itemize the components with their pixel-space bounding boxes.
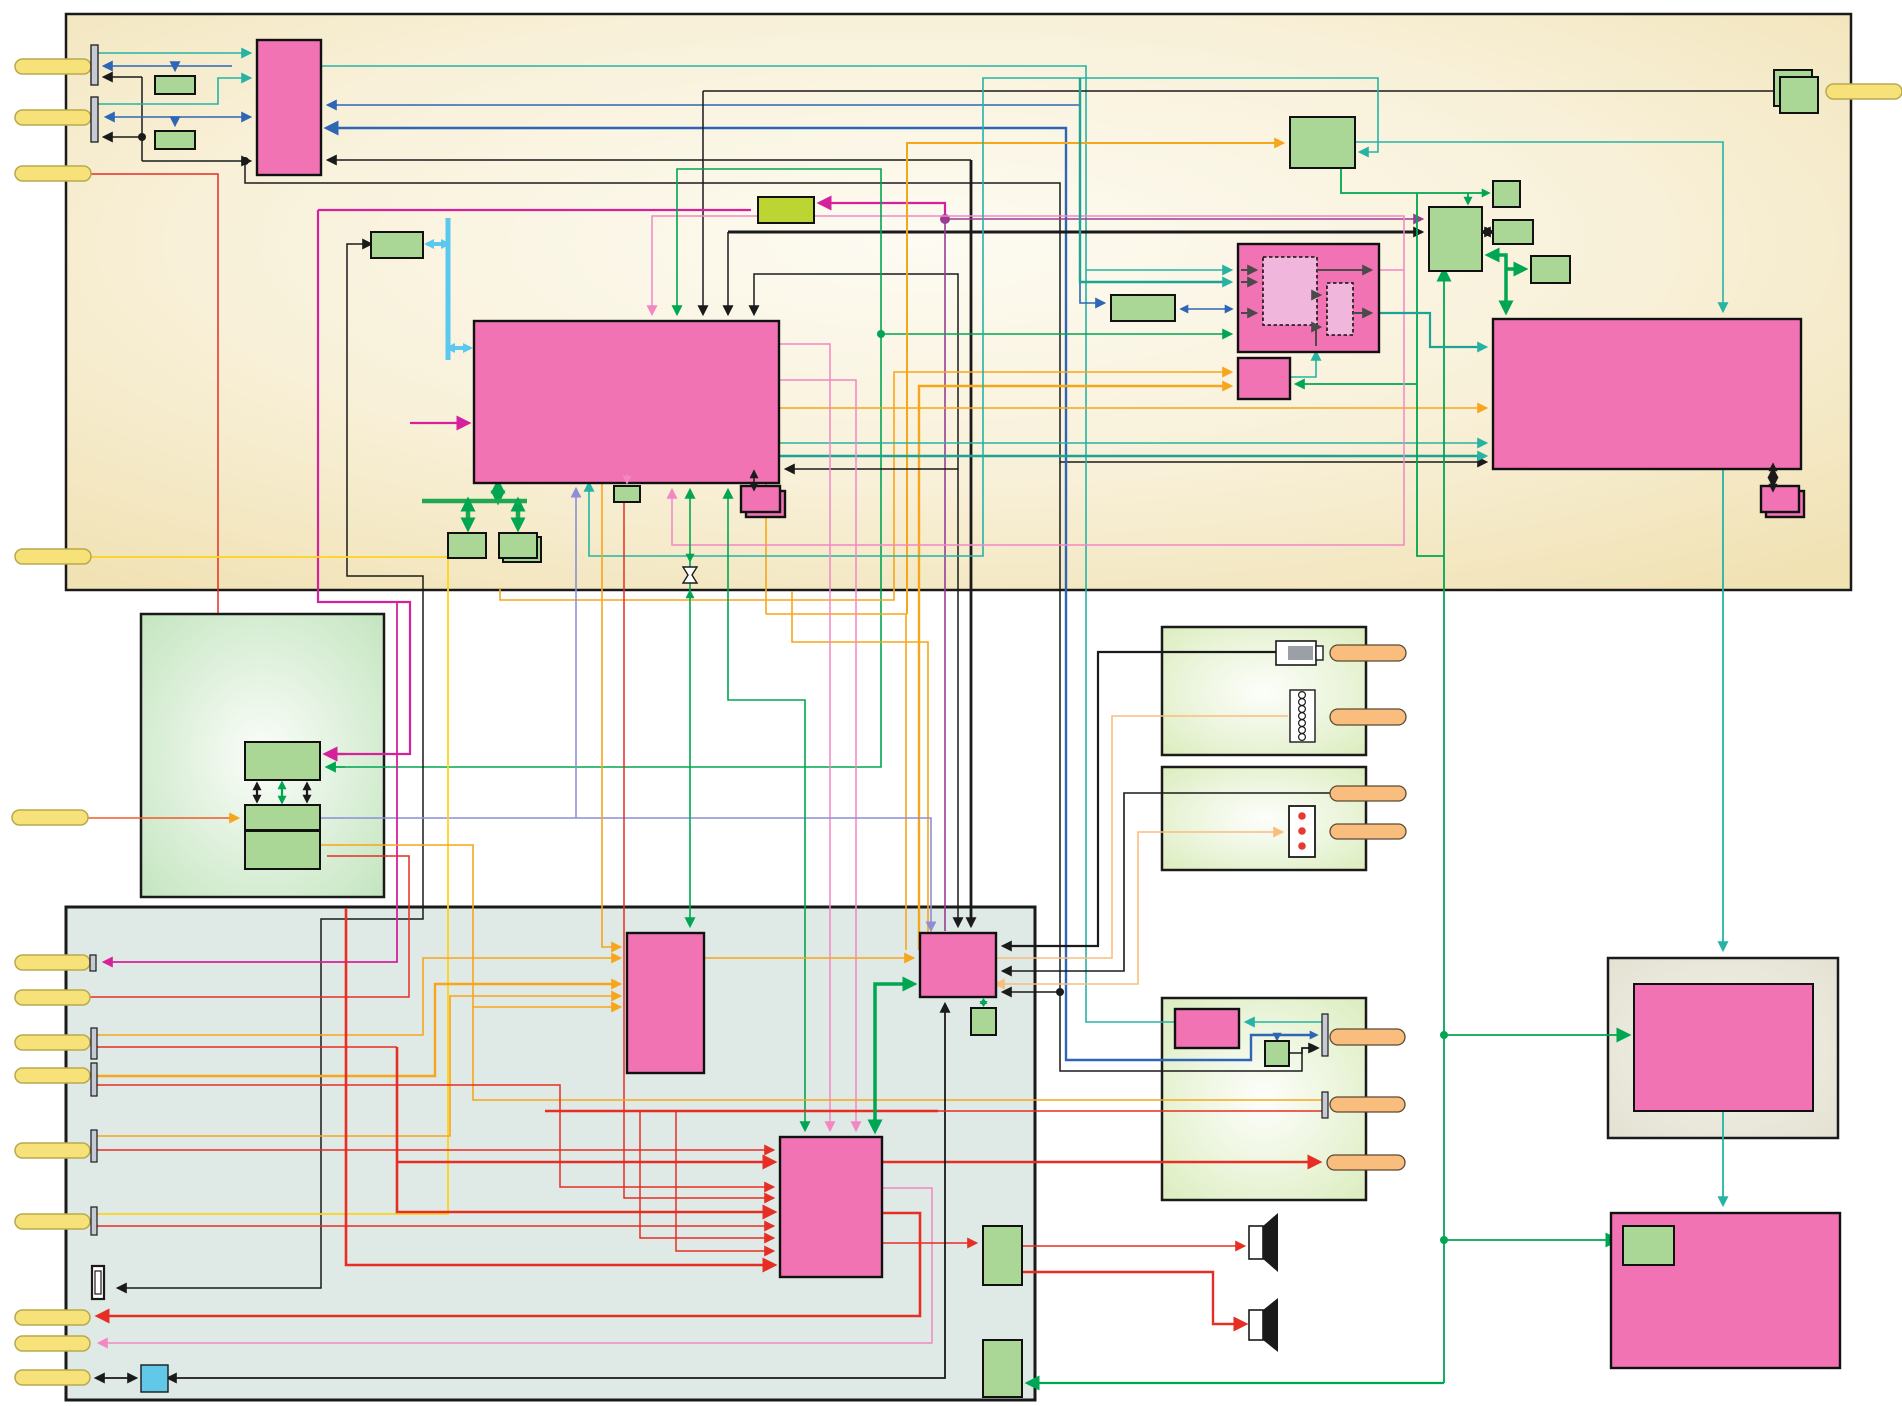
wire: black vertical junction x142 xyxy=(141,77,143,161)
wire: red thick horizontal feed xyxy=(545,1110,938,1113)
wire: red pill3 drop to green panel xyxy=(90,174,218,613)
wire: red into bar C2 xyxy=(938,1110,1324,1112)
wire: red bar3 to DSP via riser xyxy=(97,1046,397,1048)
codec P9 xyxy=(627,933,704,1073)
emerald arrow into G15 xyxy=(327,766,345,768)
amp G19 xyxy=(983,1226,1022,1285)
wire: orange riser to clock G5 xyxy=(907,143,1283,614)
wire: black IC5 to flash P6 xyxy=(1772,469,1774,486)
wire: orange IC2 area down to P9 xyxy=(602,483,620,947)
pmic hub G6 xyxy=(1429,207,1482,271)
wire: magenta net L spine xyxy=(318,210,410,754)
LED column icon xyxy=(1289,806,1315,857)
speaker 2 xyxy=(1249,1310,1263,1340)
audio reg G18 xyxy=(1265,1041,1289,1066)
wire: emerald branch to display panel xyxy=(1444,1034,1627,1036)
wire: emerald bottom to amp G20 xyxy=(1029,1382,1444,1384)
wire: orange bar4 riser to P9 thick xyxy=(97,984,620,1076)
panel: main board (yellow) xyxy=(66,14,1851,590)
wire: blue into bar C1 xyxy=(1289,1048,1317,1053)
sensor G11 xyxy=(614,486,640,502)
wire: emerald drop into hub top xyxy=(1467,193,1469,203)
wire: pink DSP loop to pill9 xyxy=(99,1188,932,1343)
G7 xyxy=(1493,181,1520,207)
wire: teal display panel to bottom block xyxy=(1722,1111,1724,1205)
wire: emerald G5 bottom to hub G6 and G7 xyxy=(1341,168,1488,193)
wire: emerald from below into hub G6 bottom xyxy=(1443,271,1445,1383)
wire: red amp to speaker2 thick xyxy=(1022,1272,1244,1324)
wire: teal bar2 jog to IC1 xyxy=(98,78,250,104)
speaker 1 xyxy=(1249,1226,1263,1259)
wire: green bus under IC2 xyxy=(496,483,501,501)
coil icon xyxy=(1290,690,1315,742)
clock gen G5 xyxy=(1290,117,1355,168)
wire: orange-red pill to G16 xyxy=(88,817,238,819)
wire: black bar1 loop xyxy=(104,76,142,78)
wire: black net F lower branch xyxy=(1060,462,1317,1071)
wire: red riser into DSP 1187 xyxy=(640,1111,773,1238)
wire: yellow net top pill to io pill xyxy=(90,557,448,1214)
audio DAC P11 xyxy=(1175,1009,1239,1048)
IC4 rtc block xyxy=(1238,358,1290,399)
orange pills battery panel xyxy=(1330,645,1406,661)
wire: black net D top link to flash copies xyxy=(703,90,1773,92)
wire: pink from dashed out via right loop into IC2 bottom xyxy=(672,270,1404,545)
link arrow: hub to G22 xyxy=(983,1002,985,1004)
junction dot net F at hub branch xyxy=(1056,988,1064,996)
wire: magenta net L branch into IC2 left xyxy=(410,422,467,424)
wire: pink IC2 right out B to DSP top xyxy=(779,380,856,1130)
wire: emerald thick elbow G6 / G9 / IC5 xyxy=(1489,255,1506,311)
display driver block P12 xyxy=(1611,1213,1840,1368)
wire: orange bar5 riser to P9 xyxy=(97,996,620,1136)
dram G17 xyxy=(245,831,320,869)
buffer G22 below hub xyxy=(971,1008,996,1035)
wire: black into IC2 right xyxy=(786,468,958,470)
wire: black battery to hub (net O) xyxy=(1003,652,1276,946)
wire: teal IC2 to IC5 thick xyxy=(779,455,1486,458)
codec G4 olive xyxy=(758,197,814,223)
wire: red thick DSP out to audio pill C3 xyxy=(882,1161,1318,1164)
wire: blue thick IC1 to audio G18 xyxy=(328,128,1316,1060)
wire: teal display chain from IC5 bottom xyxy=(1722,469,1724,950)
connector bar top 1 xyxy=(91,45,98,85)
panel: LED module xyxy=(1162,767,1366,870)
wire: blue IC1 area to bar1 with branch to reg1 xyxy=(104,65,232,67)
wire: dark teal thick into dashed block xyxy=(1080,78,1231,282)
orange pills audio panel xyxy=(1330,1029,1405,1045)
wire: red thick DSP loop to pill8 xyxy=(99,1213,920,1316)
wire: black IC2 to P7 stack xyxy=(753,483,755,486)
IC3 power block with dashed subunits xyxy=(1238,244,1379,352)
wire: black net D drop into big IC2 xyxy=(702,91,704,314)
wire: orange into rtc P4 input2 xyxy=(919,386,1231,950)
DSP P10 xyxy=(780,1137,882,1277)
connector bar io 3 xyxy=(91,1028,97,1059)
yellow connector pills bottom xyxy=(15,955,90,970)
wire: emerald branch to G21 xyxy=(1444,1239,1616,1241)
wire: blue bar2 to IC1 double arrow xyxy=(106,116,250,118)
wire: black net I IC2 top to bottom hub top xyxy=(754,274,958,926)
link arrows: G15 to G16 xyxy=(256,784,258,801)
audio connector bar 1 xyxy=(1322,1014,1328,1056)
wire: purple junction to green hub xyxy=(945,218,1422,220)
wire: red G11 down to DSP xyxy=(624,502,773,1198)
connector bar io 5 xyxy=(91,1130,97,1162)
connector bar top 2 xyxy=(91,97,98,142)
wire: blue IC1 to green reg G10 xyxy=(328,105,1104,303)
bridge G3 xyxy=(371,232,423,258)
wire: black net E thick to green hub xyxy=(728,231,1422,234)
regulator G2 xyxy=(155,131,195,149)
wire: orange top right into G5 handled; teal G5 right to display column xyxy=(1355,142,1723,311)
wire: orange bar3 riser to P9 xyxy=(97,958,620,1035)
wire: blue drop into reg1 xyxy=(174,66,176,70)
panel: memory module (green, mid-left) xyxy=(141,614,384,897)
wire: red amp to speaker1 xyxy=(1022,1245,1244,1247)
wire: light orange hub to coil (net P) xyxy=(996,716,1288,958)
star coupler icon xyxy=(683,567,697,583)
wire: black net F long: IC1 junction to big IC5 xyxy=(245,161,1486,462)
IC1 interface controller xyxy=(257,40,321,175)
magenta arrow into G15 xyxy=(327,753,345,755)
sd slot blue block xyxy=(141,1365,168,1392)
wire: black net E drop into IC2 xyxy=(727,232,729,314)
panel: battery module xyxy=(1162,627,1366,755)
sub block G20 xyxy=(983,1340,1022,1397)
battery icon xyxy=(1276,641,1316,665)
wire: black IC1 right from bottom hub (net H) xyxy=(328,159,971,161)
wire: teal branch into dashed block xyxy=(1086,269,1231,271)
wire: teal from dashed out2 xyxy=(1379,313,1486,347)
connector bar io 4 xyxy=(91,1063,97,1096)
wire: black bar2 to junction xyxy=(104,136,142,138)
wire: black double link G6 to G8 xyxy=(1482,231,1493,233)
wire: orange IC2 to big IC5 xyxy=(766,407,1486,409)
IC2 main SoC xyxy=(474,321,779,483)
yellow connector pill row top xyxy=(15,59,91,74)
G8 xyxy=(1493,220,1533,244)
wire: magenta codec right link from purple junction xyxy=(821,203,945,219)
wire: magenta io pill riser xyxy=(104,602,397,962)
hub controller P8 xyxy=(920,933,996,997)
wire: teal bar1 to IC1 xyxy=(98,52,250,54)
wire: teal IC2 bottom to clock G5 xyxy=(589,78,1378,556)
G9 xyxy=(1531,256,1570,283)
wire: cyan bus to IC2 xyxy=(448,346,470,350)
wire: cyan bus to G3 xyxy=(427,242,448,246)
wire: purple drop to bottom hub xyxy=(944,219,946,931)
wire: emerald IC2 bottom second to DSP xyxy=(728,490,805,1130)
junction dot xyxy=(138,133,146,141)
display panel inner xyxy=(1634,984,1813,1111)
wire: grey internal arrows dashed block xyxy=(1245,269,1256,271)
dram ctl G15 xyxy=(245,742,320,780)
wire: teal IC2 to IC5 thin xyxy=(779,442,1486,444)
wire: emerald thick DSP to hub xyxy=(875,984,913,1130)
wire: emerald IC2 top / dashed block / dram feed xyxy=(327,169,881,767)
usb receptacle xyxy=(92,1266,104,1299)
wire: black LED pill to hub (net Q) xyxy=(1003,793,1330,971)
wire: red pill2 to green panel G17 xyxy=(89,856,409,997)
wire: emerald branch into dashed block xyxy=(881,333,1231,335)
wire: emerald G5 drop to join column xyxy=(1417,193,1444,556)
flash P6 stack xyxy=(1766,491,1804,517)
dashed subunit L2 xyxy=(1327,283,1353,335)
regulator G1 xyxy=(155,76,195,94)
link arrow: SoC to eeprom stack xyxy=(753,472,755,489)
link arrow: IC5 to flash stack xyxy=(1772,465,1774,490)
wire: teal audio C1 to bar xyxy=(1246,1021,1324,1023)
wire: blue drop into reg2 xyxy=(174,117,176,125)
display bezel xyxy=(1608,958,1838,1138)
wire: pink IC2 right out A to DSP top xyxy=(779,344,830,1130)
wire: orange P9 to hub link xyxy=(704,957,913,959)
backlight G21 xyxy=(1623,1226,1674,1265)
wire: lavender G16 to bottom hub with IC2 branch xyxy=(320,818,931,929)
flash G14 stack top right xyxy=(1774,70,1812,106)
blue link G10 to power block xyxy=(1182,308,1231,310)
wire: orange bar C2 red xyxy=(97,1110,420,1112)
connector bar io small xyxy=(90,955,96,971)
wire: emerald pink-small P4 to dashed bottom xyxy=(1290,352,1316,377)
audio connector bar 2 xyxy=(1322,1092,1328,1118)
link arrow: G6 to G8 xyxy=(1481,231,1494,233)
pink drop into G11 xyxy=(626,474,628,482)
eeprom P7 stack xyxy=(746,491,785,517)
wire: cyan bus vertical xyxy=(446,218,451,360)
star arrows xyxy=(689,553,691,560)
wire: red bar5 thick to DSP xyxy=(97,1149,773,1151)
wire: orange into hub left xyxy=(97,1075,435,1077)
dashed subunit L1 xyxy=(1263,257,1317,325)
wire: red riser into DSP 1251 xyxy=(676,1111,773,1251)
connector bar io 6 xyxy=(91,1207,97,1235)
mem G13 stack xyxy=(503,537,541,562)
IC5 companion chip xyxy=(1493,319,1801,469)
wire: red bar6 to DSP xyxy=(97,1225,773,1227)
grey internal arrows of power block xyxy=(1241,270,1371,346)
panel: audio module xyxy=(1162,998,1366,1200)
orange pills LED panel xyxy=(1330,786,1406,801)
wire: light pink into IC2 top xyxy=(652,216,1404,314)
wire: orange G17 memctl to P9 xyxy=(320,845,1324,1100)
dram G16 xyxy=(245,805,320,830)
wire: emerald star net IC2 bottom to P9 xyxy=(689,490,691,926)
wire: black junction to IC1 left xyxy=(142,160,250,162)
wire: red DSP to amp G19 xyxy=(882,1242,976,1244)
reg G10 xyxy=(1111,295,1175,321)
wire: black usb net J xyxy=(118,244,423,1288)
wire: red bar4 thick to DSP xyxy=(97,1085,773,1187)
wire: orange into rtc P4 input1 xyxy=(500,372,1231,600)
wire: teal IC1 out to dashed block and audio DAC xyxy=(321,66,1180,1022)
wire: blue bar to G18 xyxy=(1276,1035,1278,1039)
wire: magenta net L to codec (olive) xyxy=(318,209,751,211)
panel: io board (blue-grey, bottom) xyxy=(66,907,1035,1400)
wire: black pill10 blue block chain to hub bottom xyxy=(96,1377,136,1379)
wire: black net F branch to hub xyxy=(1003,991,1060,993)
wire: emerald branch into rtc P4 right xyxy=(1296,383,1417,385)
wire: light orange hub to LED block (net R) xyxy=(996,983,1003,985)
mem G12 xyxy=(448,533,486,558)
wire: red thick DSP 1264 xyxy=(346,908,773,1265)
